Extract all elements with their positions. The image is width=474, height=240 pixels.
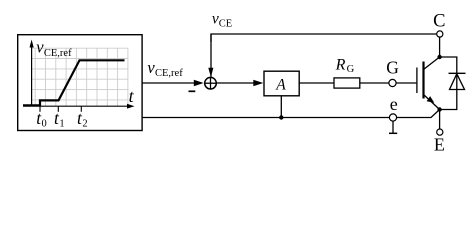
- svg-text:0: 0: [42, 119, 47, 130]
- svg-text:2: 2: [82, 119, 87, 130]
- svg-text:e: e: [390, 94, 398, 114]
- svg-text:E: E: [434, 135, 445, 155]
- svg-text:CE: CE: [219, 18, 232, 29]
- svg-text:A: A: [275, 77, 286, 94]
- svg-text:C: C: [433, 12, 445, 32]
- svg-text:CE,ref: CE,ref: [44, 48, 72, 59]
- svg-text:CE,ref: CE,ref: [155, 68, 183, 79]
- svg-text:R: R: [335, 57, 346, 74]
- svg-text:G: G: [347, 64, 355, 75]
- svg-text:G: G: [386, 58, 399, 78]
- svg-text:1: 1: [59, 119, 64, 130]
